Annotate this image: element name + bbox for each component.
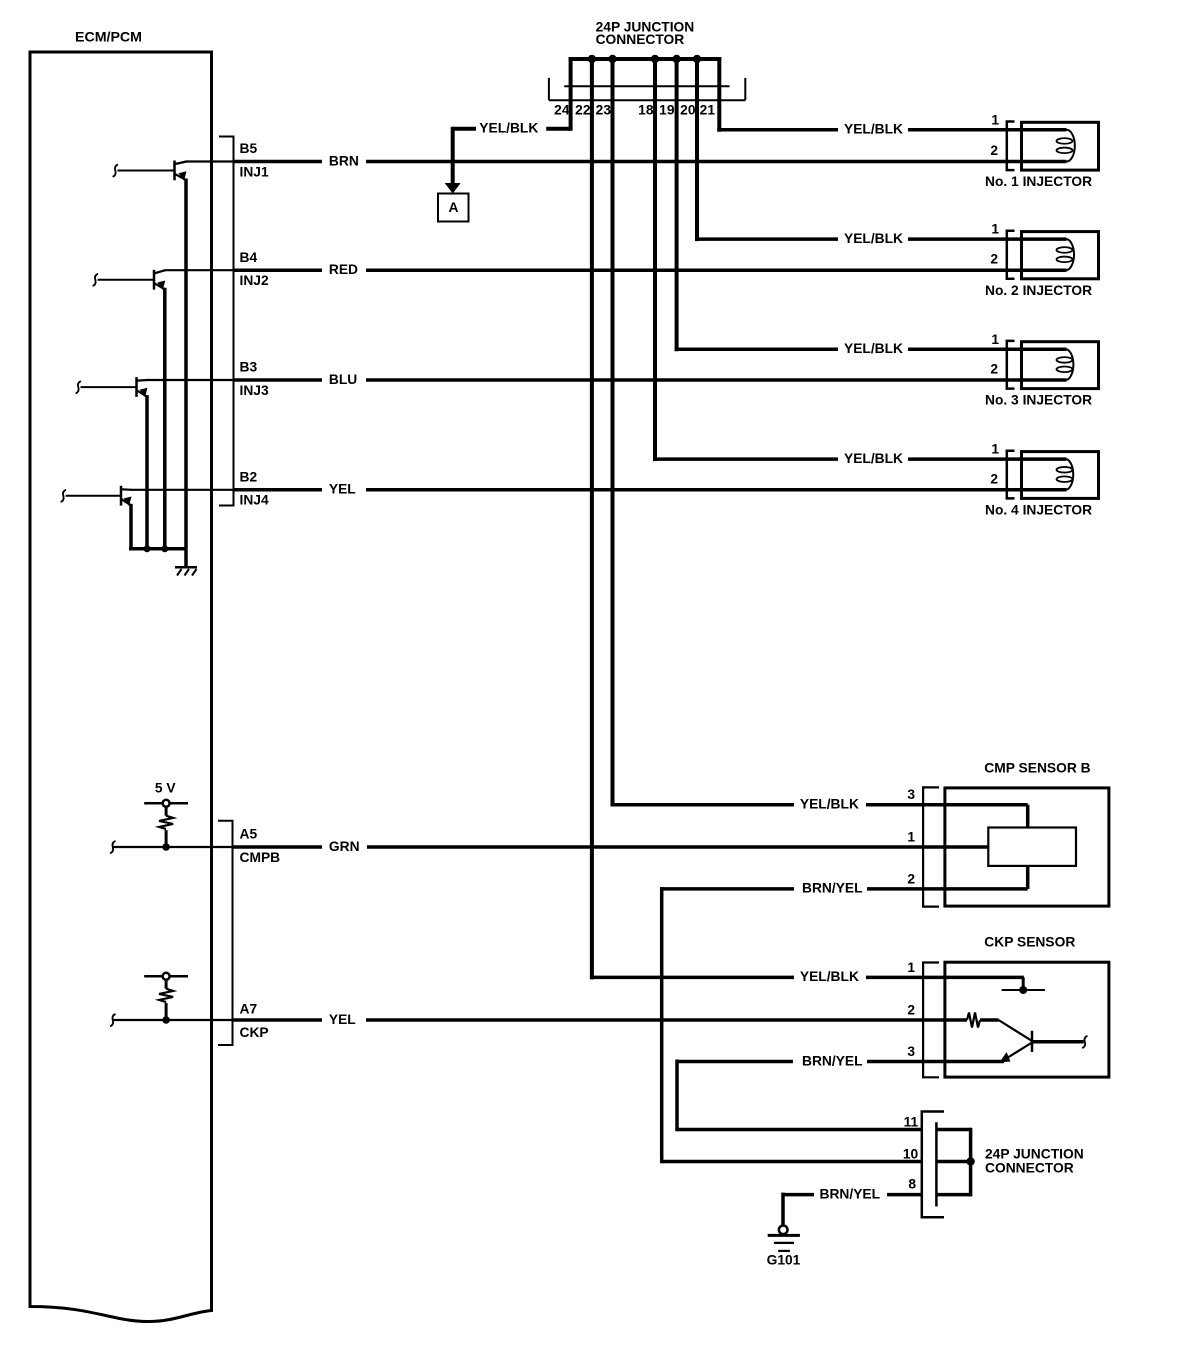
svg-text:BRN/YEL: BRN/YEL (802, 881, 863, 896)
svg-text:23: 23 (596, 102, 612, 117)
svg-text:B3: B3 (240, 360, 258, 375)
svg-text:11: 11 (904, 1114, 919, 1129)
svg-text:GRN: GRN (329, 839, 360, 854)
svg-text:CONNECTOR: CONNECTOR (985, 1160, 1074, 1175)
svg-text:BRN/YEL: BRN/YEL (820, 1186, 881, 1201)
svg-text:1: 1 (991, 112, 999, 127)
svg-text:2: 2 (907, 871, 915, 886)
svg-text:A5: A5 (240, 827, 258, 842)
svg-text:B2: B2 (240, 470, 258, 485)
svg-text:8: 8 (908, 1177, 916, 1192)
svg-text:CKP SENSOR: CKP SENSOR (984, 935, 1075, 950)
svg-text:10: 10 (903, 1146, 919, 1161)
svg-text:21: 21 (700, 102, 716, 117)
svg-text:B4: B4 (240, 250, 258, 265)
svg-text:INJ3: INJ3 (240, 383, 269, 398)
svg-text:YEL: YEL (329, 482, 356, 497)
svg-text:2: 2 (990, 143, 998, 158)
svg-text:2: 2 (990, 362, 998, 377)
svg-text:YEL: YEL (329, 1012, 356, 1027)
svg-text:1: 1 (907, 829, 915, 844)
svg-text:19: 19 (659, 102, 675, 117)
svg-text:1: 1 (991, 332, 999, 347)
svg-text:A7: A7 (240, 1002, 258, 1017)
svg-text:1: 1 (991, 442, 999, 457)
svg-text:YEL/BLK: YEL/BLK (479, 120, 538, 135)
svg-text:18: 18 (638, 102, 654, 117)
svg-text:YEL/BLK: YEL/BLK (844, 122, 903, 137)
svg-text:YEL/BLK: YEL/BLK (844, 341, 903, 356)
svg-text:RED: RED (329, 262, 358, 277)
svg-text:CMPB: CMPB (240, 850, 281, 865)
svg-text:INJ4: INJ4 (240, 493, 269, 508)
svg-text:1: 1 (907, 960, 915, 975)
svg-text:YEL/BLK: YEL/BLK (844, 231, 903, 246)
svg-text:YEL/BLK: YEL/BLK (800, 969, 859, 984)
svg-text:CKP: CKP (240, 1025, 269, 1040)
svg-text:2: 2 (990, 471, 998, 486)
svg-text:BRN: BRN (329, 153, 359, 168)
svg-text:24: 24 (554, 102, 570, 117)
svg-text:20: 20 (680, 102, 696, 117)
svg-text:CMP SENSOR B: CMP SENSOR B (984, 760, 1090, 775)
svg-text:2: 2 (907, 1002, 915, 1017)
svg-text:G101: G101 (767, 1253, 801, 1268)
svg-text:YEL/BLK: YEL/BLK (800, 797, 859, 812)
svg-text:BLU: BLU (329, 372, 357, 387)
svg-text:5 V: 5 V (155, 780, 177, 795)
svg-text:ECM/PCM: ECM/PCM (75, 30, 142, 46)
svg-text:No. 1 INJECTOR: No. 1 INJECTOR (985, 174, 1092, 189)
svg-text:BRN/YEL: BRN/YEL (802, 1053, 863, 1068)
svg-text:2: 2 (990, 252, 998, 267)
svg-text:3: 3 (907, 787, 915, 802)
svg-text:22: 22 (575, 102, 591, 117)
svg-text:A: A (449, 200, 459, 215)
svg-text:1: 1 (991, 222, 999, 237)
svg-text:No. 2 INJECTOR: No. 2 INJECTOR (985, 283, 1092, 298)
svg-text:No. 4 INJECTOR: No. 4 INJECTOR (985, 503, 1092, 518)
svg-text:YEL/BLK: YEL/BLK (844, 451, 903, 466)
svg-text:3: 3 (907, 1044, 915, 1059)
svg-text:No. 3 INJECTOR: No. 3 INJECTOR (985, 393, 1092, 408)
svg-text:B5: B5 (240, 141, 258, 156)
svg-text:CONNECTOR: CONNECTOR (596, 32, 685, 47)
svg-text:INJ2: INJ2 (240, 273, 269, 288)
svg-text:INJ1: INJ1 (240, 164, 269, 179)
